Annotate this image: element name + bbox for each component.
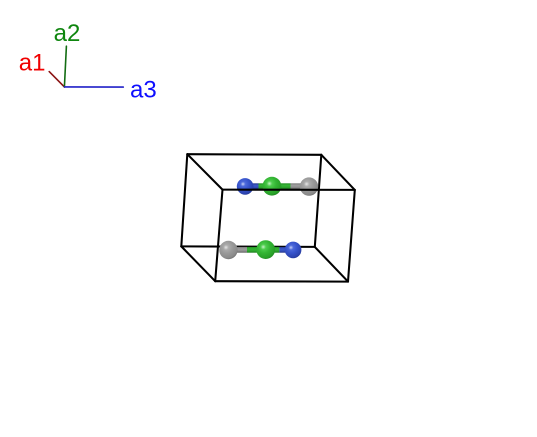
svg-text:a1: a1 xyxy=(19,50,46,77)
svg-text:a2: a2 xyxy=(54,20,81,47)
svg-text:a3: a3 xyxy=(130,76,157,103)
